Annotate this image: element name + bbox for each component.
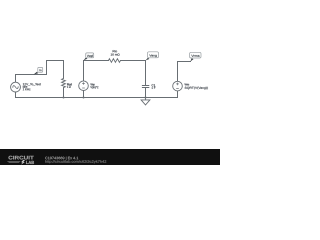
wire C1 bottom lead xyxy=(145,88,147,98)
wire V1 top horizontal xyxy=(16,74,47,76)
label Vrms expression xyxy=(185,87,208,90)
junction C1 / ground xyxy=(145,97,147,99)
resistor Rload xyxy=(62,78,66,87)
node flag Vrms xyxy=(190,52,201,61)
label Vinp name xyxy=(90,83,94,86)
ground xyxy=(141,98,150,105)
label flag Vsqd text xyxy=(87,55,93,58)
label C1 name xyxy=(152,84,156,86)
label V1 type sine xyxy=(23,86,28,88)
label Vrms source name xyxy=(185,83,190,85)
label Rto name xyxy=(113,50,117,52)
wire C1 top lead xyxy=(145,61,147,86)
behavioral source Vinp xyxy=(79,81,89,91)
label V1 name 12V_To_Test xyxy=(23,83,41,86)
wire riser to top rail xyxy=(46,61,48,75)
label flag Vrms text xyxy=(191,55,199,57)
wire Rload bottom lead xyxy=(63,88,65,98)
junction Vinp bottom xyxy=(83,97,85,99)
voltage source V1 (sine) xyxy=(11,82,21,92)
CircuitLab logo strike lines and bolt xyxy=(7,160,25,165)
label C1 value xyxy=(152,87,156,89)
label Vinp expression xyxy=(90,86,98,89)
logo CIRCUIT xyxy=(8,156,33,160)
wire Rto to C1 corner xyxy=(121,60,146,62)
node flag Vavg xyxy=(146,52,159,61)
footer url xyxy=(45,160,106,163)
junction Rload bottom xyxy=(63,97,65,99)
resistor Rto xyxy=(109,59,121,63)
label Rto value 10 mohm xyxy=(111,53,120,55)
label flag In text xyxy=(40,69,42,71)
label Rload value 1 ohm xyxy=(67,86,70,88)
wire V1 top vertical xyxy=(15,75,17,83)
wire Vrms source top lead xyxy=(177,62,179,82)
wire Vrms source bottom lead xyxy=(177,91,179,98)
logo LAB xyxy=(26,161,34,164)
capacitor C1 xyxy=(142,86,149,88)
wire V1 bottom lead xyxy=(15,92,17,98)
label flag Vavg text xyxy=(149,54,156,57)
label Rload name xyxy=(67,83,72,85)
wire Rload top lead xyxy=(63,61,65,79)
footer bar xyxy=(0,149,220,165)
footer id and title xyxy=(45,157,78,160)
behavioral source Vrms (SQRT) xyxy=(173,81,183,91)
wire Vinp top lead xyxy=(83,61,85,81)
wire Vinp bottom lead xyxy=(83,91,85,98)
label V1 value 1 KHz xyxy=(23,88,31,90)
wire Vrms node stub xyxy=(178,61,191,63)
node flag Vsqd xyxy=(84,53,94,60)
wire top rail left section xyxy=(47,60,64,62)
node flag In xyxy=(33,67,42,74)
wire bottom rail xyxy=(16,97,178,99)
wire top rail to Rto xyxy=(84,60,109,62)
